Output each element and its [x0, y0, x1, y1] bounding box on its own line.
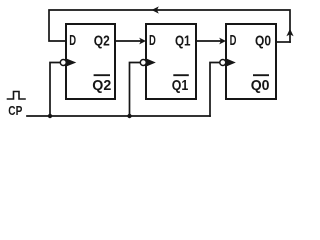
clock edge wedge U3: [227, 59, 236, 66]
wire CP line: [27, 115, 210, 117]
svg-text:Q0: Q0: [251, 77, 270, 94]
wire clock branch U3: [210, 63, 220, 117]
arrowhead on top feedback wire (points left): [152, 6, 159, 13]
arrowhead into D of U3: [219, 38, 226, 45]
arrowhead into D of U2: [139, 38, 146, 45]
clock edge wedge U1: [67, 59, 76, 66]
svg-text:D: D: [230, 32, 237, 49]
arrowhead up on right riser: [286, 29, 293, 36]
svg-text:CP: CP: [8, 104, 22, 118]
svg-text:Q2: Q2: [94, 32, 110, 49]
flip-flop U3 box: [226, 24, 276, 99]
flip-flop U2 box: [146, 24, 196, 99]
clock pulse symbol: [8, 92, 26, 100]
wire Q0 output to feedback riser: [276, 41, 290, 43]
wire feedback top: Q0 back to D of FF1: [49, 10, 290, 42]
junction dot CP/U2: [127, 114, 131, 118]
junction dot CP/U1: [48, 114, 52, 118]
overbar Q1 U2: [173, 74, 189, 76]
wire Q1 to D of U3: [196, 40, 221, 42]
wire clock branch U1: [50, 63, 60, 117]
overbar Q0 U3: [253, 74, 269, 76]
svg-text:Q1: Q1: [172, 77, 189, 94]
clock bubble U3: [220, 60, 226, 66]
clock edge wedge U2: [147, 59, 156, 66]
svg-text:Q2: Q2: [92, 77, 111, 94]
wire Q2 to D of U2: [115, 40, 141, 42]
svg-text:Q1: Q1: [175, 32, 191, 49]
wire clock branch U2: [130, 63, 141, 117]
clock bubble U2: [140, 60, 146, 66]
flip-flop U1 box: [66, 24, 115, 99]
svg-text:D: D: [149, 32, 156, 49]
clock bubble U1: [60, 60, 66, 66]
overbar Q2 U1: [94, 74, 110, 76]
svg-text:Q0: Q0: [255, 32, 271, 49]
svg-text:D: D: [69, 32, 76, 49]
